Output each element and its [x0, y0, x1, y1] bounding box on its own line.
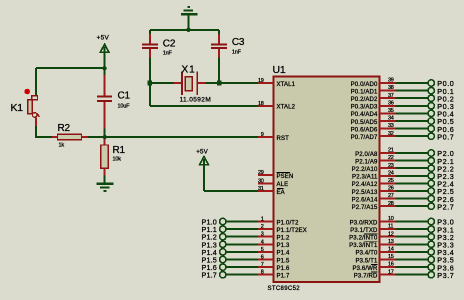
pin P1.2 (3) of U1 — [258, 236, 274, 238]
svg-text:P1.4: P1.4 — [277, 251, 290, 257]
wire: R1 to ground — [104, 176, 106, 185]
wire: terminal P1.3 to U1 pin 4 — [226, 243, 258, 245]
pin XTAL2 (18) of U1 — [258, 105, 274, 107]
svg-text:P3.7/RD: P3.7/RD — [354, 274, 378, 280]
svg-text:C3: C3 — [232, 37, 245, 48]
terminal P2.7 — [396, 205, 429, 207]
svg-text:P2.7/A15: P2.7/A15 — [352, 205, 378, 211]
svg-text:10k: 10k — [113, 157, 122, 163]
svg-text:P2.0/A8: P2.0/A8 — [355, 152, 378, 158]
terminal P2.2 — [396, 167, 429, 169]
wire: RST net to U1 pin 9 — [105, 136, 258, 138]
svg-text:3: 3 — [261, 232, 264, 238]
svg-text:P2.5/A13: P2.5/A13 — [352, 190, 378, 196]
terminal P2.5 — [396, 190, 429, 192]
svg-text:8: 8 — [261, 270, 264, 276]
wire: ground to capacitor rail — [188, 14, 190, 29]
wire: terminal P1.7 to U1 pin 8 — [226, 274, 258, 276]
pin P2.1/A9 (22) of U1 — [380, 160, 396, 162]
junction: RST node — [102, 135, 106, 139]
terminal P0.3 — [396, 105, 429, 107]
svg-text:R1: R1 — [113, 145, 126, 156]
svg-text:33: 33 — [388, 123, 394, 129]
pin P3.2/INT0 (12) of U1 — [380, 236, 396, 238]
terminal P3.1 — [396, 228, 429, 230]
svg-text:6: 6 — [261, 255, 264, 261]
svg-text:13: 13 — [388, 239, 394, 245]
wire: XTAL2 net (node XA down and right to U1) — [149, 83, 151, 106]
wire: K1 top vertical — [35, 68, 37, 95]
pin P1.4 (5) of U1 — [258, 251, 274, 253]
pin XTAL1 (19) of U1 — [258, 82, 274, 84]
svg-text:18: 18 — [258, 101, 264, 107]
terminal P0.0 — [396, 82, 429, 84]
svg-text:24: 24 — [388, 170, 394, 176]
wire: terminal P1.4 to U1 pin 5 — [226, 251, 258, 253]
svg-text:5: 5 — [261, 247, 264, 253]
pin RST (9) of U1 — [258, 136, 274, 138]
svg-text:X1: X1 — [182, 65, 196, 76]
wire: terminal P1.1 to U1 pin 2 — [226, 228, 258, 230]
svg-text:P1.5: P1.5 — [277, 258, 290, 264]
terminal P2.0 — [396, 152, 429, 154]
terminal P3.3 — [396, 243, 429, 245]
pin P0.4/AD4 (35) of U1 — [380, 112, 396, 114]
pin P3.6/WR (16) of U1 — [380, 266, 396, 268]
svg-text:P0.0/AD0: P0.0/AD0 — [351, 82, 378, 88]
pin ALE (30) of U1 — [258, 182, 274, 184]
junction node XA (crystal left) — [148, 81, 153, 86]
wire: node XA to crystal — [152, 82, 174, 84]
pin P3.4/T0 (14) of U1 — [380, 251, 396, 253]
svg-text:37: 37 — [388, 93, 394, 99]
svg-text:C2: C2 — [163, 38, 176, 49]
ground GND2 above crystal caps — [187, 6, 190, 8]
terminal P3.0 — [396, 221, 429, 223]
svg-text:PSEN: PSEN — [277, 174, 294, 180]
pin P2.0/A8 (21) of U1 — [380, 152, 396, 154]
svg-text:1k: 1k — [59, 142, 65, 148]
svg-text:15: 15 — [388, 254, 394, 260]
svg-text:1nF: 1nF — [163, 50, 173, 56]
svg-text:36: 36 — [388, 100, 394, 106]
terminal P3.4 — [396, 251, 429, 253]
terminal P2.1 — [396, 160, 429, 162]
pin P0.5/AD5 (34) of U1 — [380, 120, 396, 122]
svg-text:P1.6: P1.6 — [277, 266, 290, 272]
svg-text:P0.7: P0.7 — [437, 132, 454, 141]
pin P0.7/AD7 (32) of U1 — [380, 135, 396, 137]
svg-text:17: 17 — [388, 269, 394, 275]
svg-text:29: 29 — [258, 170, 264, 176]
svg-text:39: 39 — [388, 78, 394, 84]
svg-text:XTAL2: XTAL2 — [277, 105, 296, 111]
svg-text:34: 34 — [388, 116, 394, 122]
svg-text:32: 32 — [388, 131, 394, 137]
svg-text:P1.2: P1.2 — [277, 236, 290, 242]
pin P1.6 (7) of U1 — [258, 266, 274, 268]
resistor R1 — [104, 137, 106, 140]
svg-text:10: 10 — [388, 216, 394, 222]
pin P3.5/T1 (15) of U1 — [380, 259, 396, 261]
wire: +5V to EA pin — [204, 190, 258, 192]
svg-text:30: 30 — [258, 178, 264, 184]
svg-text:P3.3/INT1: P3.3/INT1 — [349, 243, 378, 249]
svg-text:10uF: 10uF — [118, 103, 131, 109]
red actuation dot on K1 — [24, 89, 30, 95]
pin P3.1/TXD (11) of U1 — [380, 228, 396, 230]
terminal P3.7 — [396, 274, 429, 276]
svg-text:P0.7/AD7: P0.7/AD7 — [351, 135, 378, 141]
terminal P3.5 — [396, 259, 429, 261]
svg-text:23: 23 — [388, 163, 394, 169]
svg-text:7: 7 — [261, 262, 264, 268]
svg-text:4: 4 — [261, 239, 264, 245]
svg-text:+5V: +5V — [97, 34, 110, 41]
pin EA (31) of U1 — [258, 190, 274, 192]
svg-text:1: 1 — [261, 217, 264, 223]
wire: R2 to RST node — [88, 136, 105, 138]
wire: K1 bottom to R2 — [35, 126, 37, 138]
svg-text:P1.7: P1.7 — [202, 271, 217, 280]
svg-text:16: 16 — [388, 262, 394, 268]
pin P3.3/INT1 (13) of U1 — [380, 243, 396, 245]
resistor R2 — [52, 136, 58, 138]
svg-text:P3.0/RXD: P3.0/RXD — [350, 220, 378, 226]
svg-text:U1: U1 — [273, 64, 286, 76]
svg-text:P2.3/A11: P2.3/A11 — [352, 175, 378, 181]
terminal P3.2 — [396, 236, 429, 238]
svg-text:P1.1/T2EX: P1.1/T2EX — [277, 228, 307, 234]
pin P2.4/A12 (25) of U1 — [380, 182, 396, 184]
svg-text:12: 12 — [388, 231, 394, 237]
svg-text:P0.4/AD4: P0.4/AD4 — [351, 112, 378, 118]
pin P2.7/A15 (28) of U1 — [380, 205, 396, 207]
svg-text:P1.7: P1.7 — [277, 274, 290, 280]
svg-text:P3.5/T1: P3.5/T1 — [355, 258, 378, 264]
svg-text:9: 9 — [261, 132, 264, 138]
svg-text:K1: K1 — [11, 102, 24, 114]
svg-text:XTAL1: XTAL1 — [277, 82, 296, 88]
svg-text:P0.2/AD2: P0.2/AD2 — [351, 97, 378, 103]
pushbutton K1 — [32, 96, 38, 100]
svg-text:R2: R2 — [58, 123, 71, 134]
svg-text:P2.1/A9: P2.1/A9 — [355, 159, 378, 165]
wire: terminal P1.2 to U1 pin 3 — [226, 236, 258, 238]
pin P0.2/AD2 (37) of U1 — [380, 97, 396, 99]
pin P0.3/AD3 (36) of U1 — [380, 105, 396, 107]
terminal P0.7 — [396, 135, 429, 137]
pin P0.6/AD6 (33) of U1 — [380, 128, 396, 130]
svg-text:P0.3/AD3: P0.3/AD3 — [351, 105, 378, 111]
terminal P2.4 — [396, 182, 429, 184]
svg-text:35: 35 — [388, 108, 394, 114]
pin P1.3 (4) of U1 — [258, 243, 274, 245]
capacitor C3 — [218, 30, 220, 35]
IC U1 body (STC89C52) — [274, 76, 380, 282]
svg-text:25: 25 — [388, 178, 394, 184]
pin P1.0/T2 (1) of U1 — [258, 221, 274, 223]
svg-text:11.0592M: 11.0592M — [180, 97, 212, 104]
svg-text:EA: EA — [277, 190, 285, 196]
svg-text:ALE: ALE — [277, 182, 289, 188]
svg-text:38: 38 — [388, 85, 394, 91]
junction node XB (crystal right) — [217, 81, 222, 86]
svg-text:26: 26 — [388, 186, 394, 192]
svg-text:2: 2 — [261, 224, 264, 230]
terminal P0.6 — [396, 128, 429, 130]
pin P1.5 (6) of U1 — [258, 259, 274, 261]
svg-text:P0.1/AD1: P0.1/AD1 — [351, 89, 378, 95]
svg-text:31: 31 — [258, 186, 264, 192]
wire: capacitor top rail — [150, 29, 219, 31]
svg-text:P2.4/A12: P2.4/A12 — [352, 182, 378, 188]
terminal P0.2 — [396, 97, 429, 99]
svg-text:+5V: +5V — [196, 149, 208, 156]
svg-text:RST: RST — [277, 136, 290, 142]
pin P2.2/A10 (23) of U1 — [380, 167, 396, 169]
capacitor C2 — [149, 30, 151, 35]
pin P3.7/RD (17) of U1 — [380, 274, 396, 276]
pin P0.0/AD0 (39) of U1 — [380, 82, 396, 84]
svg-text:1nF: 1nF — [232, 49, 242, 55]
svg-text:P0.5/AD5: P0.5/AD5 — [351, 120, 378, 126]
svg-text:P2.6/A14: P2.6/A14 — [352, 197, 378, 203]
terminal P0.5 — [396, 120, 429, 122]
svg-text:P2.7: P2.7 — [437, 202, 454, 211]
svg-text:11: 11 — [388, 224, 393, 230]
ground GND1 below R1 — [97, 183, 114, 185]
svg-text:P1.3: P1.3 — [277, 243, 290, 249]
pin P2.6/A14 (27) of U1 — [380, 198, 396, 200]
svg-text:STC89C52: STC89C52 — [268, 286, 301, 292]
crystal X1 — [174, 82, 181, 84]
svg-text:P3.4/T0: P3.4/T0 — [355, 251, 378, 257]
junction: +5V node — [102, 66, 106, 70]
svg-text:28: 28 — [388, 201, 394, 207]
wire: +5V node to K1 top — [36, 67, 105, 69]
capacitor C1 — [104, 68, 106, 76]
wire: terminal P1.0 to U1 pin 1 — [226, 221, 258, 223]
pin P1.7 (8) of U1 — [258, 274, 274, 276]
pin P0.1/AD1 (38) of U1 — [380, 90, 396, 92]
svg-text:P3.2/INT0: P3.2/INT0 — [349, 236, 378, 242]
svg-text:P3.7: P3.7 — [437, 271, 454, 280]
terminal P0.4 — [396, 112, 429, 114]
wire: terminal P1.6 to U1 pin 7 — [226, 266, 258, 268]
svg-text:P3.6/WR: P3.6/WR — [352, 266, 378, 272]
pin PSEN (29) of U1 — [258, 174, 274, 176]
svg-text:19: 19 — [258, 78, 264, 84]
wire: XTAL1 net (node XB to U1) — [219, 82, 258, 84]
pin P2.3/A11 (24) of U1 — [380, 175, 396, 177]
junction on capacitor rail — [186, 28, 190, 32]
pin P3.0/RXD (10) of U1 — [380, 221, 396, 223]
pin P2.5/A13 (26) of U1 — [380, 190, 396, 192]
svg-text:P0.6/AD6: P0.6/AD6 — [351, 127, 378, 133]
svg-text:22: 22 — [388, 155, 394, 161]
pin P1.1/T2EX (2) of U1 — [258, 228, 274, 230]
terminal P2.6 — [396, 198, 429, 200]
svg-text:21: 21 — [388, 148, 394, 154]
svg-text:P1.0/T2: P1.0/T2 — [277, 220, 300, 226]
wire: crystal to node XB — [206, 82, 220, 84]
terminal P3.6 — [396, 266, 429, 268]
svg-text:14: 14 — [388, 247, 394, 253]
terminal P2.3 — [396, 175, 429, 177]
svg-text:C1: C1 — [118, 91, 131, 102]
svg-text:P2.2/A10: P2.2/A10 — [352, 167, 378, 173]
svg-text:27: 27 — [388, 193, 394, 199]
terminal P0.1 — [396, 90, 429, 92]
wire: terminal P1.5 to U1 pin 6 — [226, 259, 258, 261]
svg-text:P3.1/TXD: P3.1/TXD — [350, 228, 378, 234]
